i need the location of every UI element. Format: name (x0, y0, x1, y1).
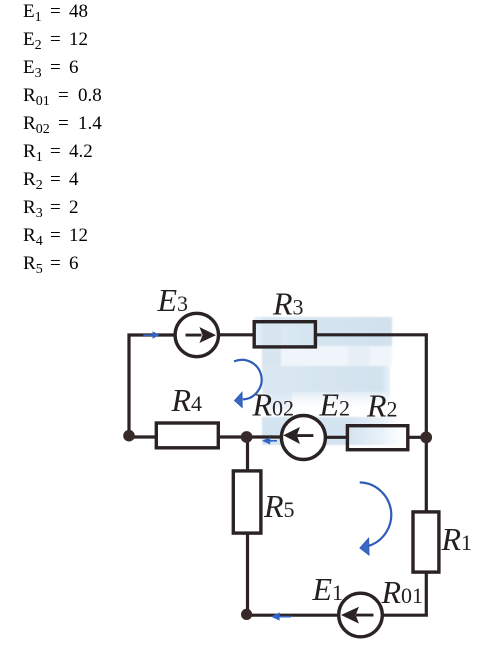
svg-text:R5: R5 (263, 488, 295, 524)
svg-text:E1=48: E1=48 (23, 1, 88, 25)
svg-text:R4: R4 (171, 382, 203, 418)
svg-text:R1: R1 (441, 521, 473, 557)
svg-text:R2=4: R2=4 (23, 169, 79, 193)
svg-text:E3: E3 (157, 282, 189, 318)
svg-text:R2: R2 (366, 388, 398, 424)
svg-text:R1=4.2: R1=4.2 (23, 141, 93, 165)
svg-text:R4=12: R4=12 (23, 225, 88, 249)
svg-text:E3=6: E3=6 (23, 57, 79, 81)
svg-text:E2=12: E2=12 (23, 29, 88, 53)
svg-text:R01: R01 (381, 574, 424, 610)
svg-text:R01=0.8: R01=0.8 (23, 85, 102, 109)
svg-text:R5=6: R5=6 (23, 253, 79, 277)
svg-text:R02=1.4: R02=1.4 (23, 113, 102, 137)
svg-text:R3: R3 (272, 286, 304, 322)
svg-text:R3=2: R3=2 (23, 197, 79, 221)
svg-text:E1: E1 (312, 571, 344, 607)
